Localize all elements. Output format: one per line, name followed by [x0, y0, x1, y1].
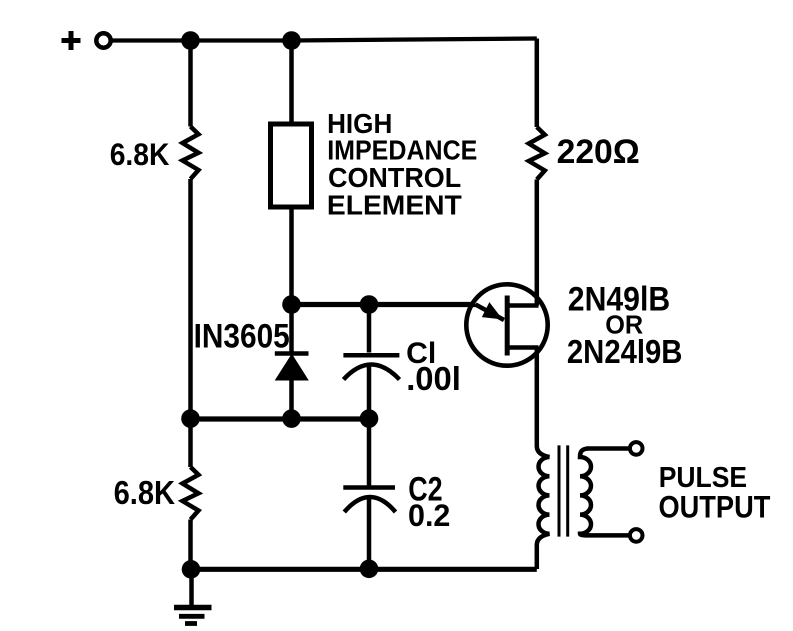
resistor R3 220ohm zigzag [529, 127, 545, 180]
transistor Q1 base bar [505, 296, 510, 356]
svg-text:IN3605: IN3605 [194, 317, 290, 355]
svg-text:OUTPUT: OUTPUT [659, 490, 771, 525]
junction dot left mid [181, 409, 200, 428]
high impedance control element box [271, 124, 312, 207]
transistor Q1 circle [466, 284, 547, 365]
svg-text:PULSE: PULSE [659, 461, 747, 493]
ground bar 3 [185, 621, 197, 626]
capacitor C2 curved plate [344, 497, 395, 512]
wire: secondary top lead [587, 446, 629, 451]
diode D1 triangle [277, 356, 308, 380]
transformer T1 secondary winding [580, 449, 591, 536]
wire: top rail y=40 [111, 39, 537, 41]
wire: C1 top lead [367, 305, 372, 353]
output terminal circle bottom [630, 529, 643, 542]
wire: right rail top (corner to resistor) [535, 39, 540, 128]
svg-text:CONTROL: CONTROL [328, 162, 461, 194]
wire: left rail lower segment [188, 520, 193, 570]
ground bar 2 [179, 614, 205, 619]
transformer T1 core bar right [566, 445, 569, 536]
junction dot diode bottom [282, 409, 301, 428]
resistor R2 6.8K zigzag [183, 467, 199, 520]
wire: left rail upper segment [188, 41, 193, 127]
input terminal circle [96, 33, 110, 47]
wire: C1 bottom lead [367, 364, 372, 419]
wire: bottom rail y=569 [191, 567, 537, 572]
ground stub [189, 569, 194, 606]
svg-text:6.8K: 6.8K [110, 138, 170, 173]
wire: rail x=291 box to diode [289, 207, 294, 352]
svg-text:2N24l9B: 2N24l9B [567, 333, 683, 370]
capacitor C2 top plate [343, 485, 395, 490]
wire: C2 bottom lead [367, 497, 372, 569]
wire: left rail middle segment [188, 179, 193, 467]
svg-text:0.2: 0.2 [408, 498, 450, 534]
ground bar 1 [174, 605, 212, 611]
svg-text:6.8K: 6.8K [114, 474, 176, 511]
junction dot diode top [282, 295, 301, 314]
wire: emitter diagonal into base bar [476, 305, 505, 321]
junction dot C1 top [360, 295, 379, 314]
svg-text:220Ω: 220Ω [557, 133, 640, 171]
wire: right rail B1 to transformer [535, 348, 540, 447]
junction dot top-left rail [181, 31, 200, 50]
output terminal circle top [630, 442, 643, 455]
wire: middle horizontal y=418.6 [191, 416, 370, 421]
wire: secondary bottom lead [587, 533, 629, 538]
junction dot C2 top node [360, 409, 379, 428]
transformer T1 primary winding [537, 446, 550, 569]
capacitor C1 top plate [343, 353, 399, 358]
capacitor C1 curved plate [344, 365, 400, 380]
wire: C2 top lead [367, 419, 372, 487]
junction dot top x=291 [282, 31, 301, 50]
transistor Q1 B2 lead [507, 303, 538, 308]
wire: right rail to transistor B2 [535, 180, 540, 306]
emitter arrowhead [483, 304, 501, 319]
junction dot ground node [182, 560, 201, 579]
transistor Q1 B1 lead [507, 345, 538, 350]
svg-text:ELEMENT: ELEMENT [327, 190, 462, 221]
svg-text:.00l: .00l [406, 360, 461, 397]
junction dot C2 bottom node [360, 560, 379, 579]
diode D1 cathode bar [275, 351, 309, 356]
plus terminal symbol [62, 31, 81, 50]
transformer T1 core bar left [558, 445, 561, 536]
wire: emitter horizontal y=304.5 [292, 302, 476, 307]
wire: rail x=291 diode to node [289, 379, 294, 419]
wire: rail at x=291 top [289, 41, 294, 125]
resistor R1 6.8K zigzag [183, 127, 199, 180]
